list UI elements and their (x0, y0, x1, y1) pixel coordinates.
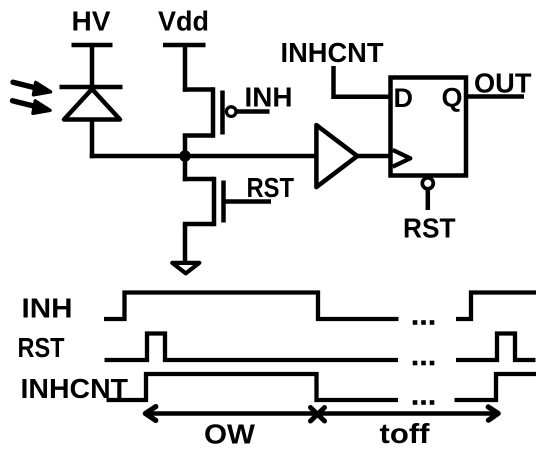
buffer U1 (316, 125, 357, 187)
Vdd rail (163, 43, 206, 48)
NMOS M2 (183, 156, 271, 226)
left arrowhead (145, 407, 156, 421)
INHCNT ellipsis dots (413, 400, 435, 405)
svg-text:INH: INH (245, 82, 293, 113)
ground (172, 263, 199, 274)
svg-text:D: D (394, 83, 414, 113)
wire HV rail to photodiode cathode (90, 45, 95, 89)
INH waveform left (104, 293, 399, 320)
svg-text:INHCNT: INHCNT (281, 37, 384, 68)
anode wire down from photodiode (90, 120, 95, 159)
wire Vdd rail to PMOS source (183, 45, 188, 92)
svg-text:toff: toff (380, 418, 431, 449)
HV rail (72, 43, 113, 48)
node junction dot (179, 150, 191, 162)
wire buffer output to flip-flop clock (357, 154, 390, 159)
svg-text:OUT: OUT (474, 68, 532, 99)
INH waveform right (456, 293, 536, 320)
right arrowhead (488, 407, 498, 420)
svg-text:RST: RST (247, 172, 295, 203)
INHCNT waveform right (455, 374, 537, 400)
main wire node to buffer (90, 154, 318, 159)
svg-text:RST: RST (18, 332, 65, 363)
svg-text:OW: OW (204, 419, 256, 450)
RST waveform right (456, 334, 536, 361)
flip-flop reset bubble (422, 178, 433, 189)
INHCNT waveform left (107, 374, 399, 400)
svg-text:Q: Q (442, 83, 463, 113)
photodiode D1 cathode bar (60, 85, 123, 90)
svg-text:RST: RST (403, 213, 456, 244)
RST ellipsis dots (413, 361, 435, 366)
light arrow 1 (13, 82, 51, 95)
svg-text:Vdd: Vdd (158, 6, 209, 37)
INH ellipsis dots (413, 320, 435, 325)
Q output wire (466, 94, 524, 99)
svg-text:INH: INH (22, 293, 73, 324)
INHCNT wire to D input (334, 66, 391, 97)
clock input triangle (393, 150, 411, 167)
svg-text:HV: HV (72, 6, 111, 37)
OW/toff dimension line (146, 411, 497, 415)
wire PMOS drain to node (183, 136, 188, 159)
X divider marker (311, 408, 325, 422)
photodiode D1 triangle (64, 89, 120, 120)
wire NMOS source to ground (183, 224, 188, 262)
RST waveform left (105, 334, 399, 361)
PMOS M1 (183, 87, 270, 137)
flip-flop reset wire (426, 190, 431, 210)
flip-flop U2 box (391, 78, 467, 176)
light arrow 2 (13, 101, 51, 114)
